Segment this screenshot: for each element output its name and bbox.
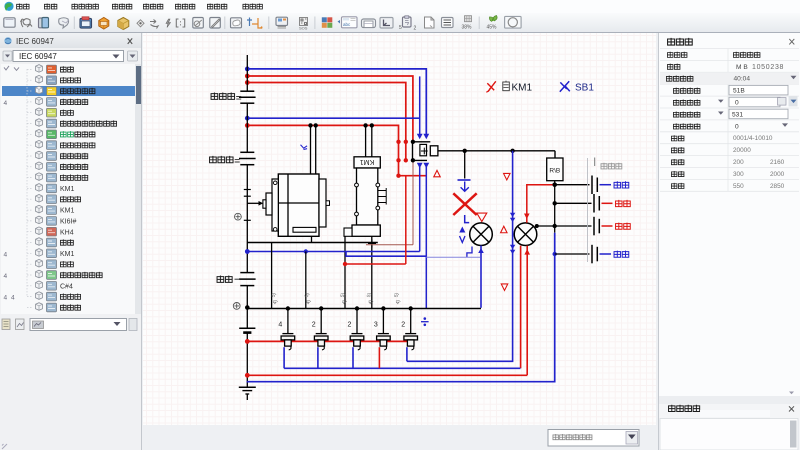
svg-text:IEC 60947: IEC 60947	[16, 37, 54, 46]
svg-text:KM1: KM1	[60, 251, 75, 258]
svg-text:38%: 38%	[462, 25, 473, 31]
svg-text:531: 531	[732, 111, 743, 118]
svg-text:5): 5)	[271, 292, 278, 298]
svg-text:550: 550	[733, 183, 744, 190]
svg-text:2: 2	[401, 322, 405, 329]
svg-text:KI6I#: KI6I#	[60, 219, 76, 226]
svg-text:51B: 51B	[733, 88, 745, 95]
svg-text:IEC 60947: IEC 60947	[19, 52, 57, 61]
svg-text:45%: 45%	[487, 25, 498, 31]
svg-text:SOS: SOS	[299, 26, 308, 31]
svg-text:KM1: KM1	[512, 83, 533, 94]
svg-text:2: 2	[312, 322, 316, 329]
svg-text:4: 4	[278, 322, 282, 329]
svg-text:KM1: KM1	[60, 208, 75, 215]
svg-text:5): 5)	[393, 292, 400, 298]
svg-text:abc: abc	[343, 22, 351, 27]
svg-text:KM1: KM1	[360, 158, 375, 165]
svg-text:2160: 2160	[770, 159, 785, 166]
svg-text:20000: 20000	[733, 147, 751, 154]
svg-text:0: 0	[735, 100, 739, 107]
svg-text:2: 2	[414, 26, 417, 32]
svg-text:4: 4	[4, 251, 8, 258]
svg-text:0001/4-10010: 0001/4-10010	[733, 135, 773, 142]
svg-text:40:04: 40:04	[734, 76, 751, 83]
svg-text:4): 4)	[368, 299, 375, 305]
svg-text:4): 4)	[305, 299, 312, 305]
svg-text:R\B: R\B	[549, 168, 560, 175]
svg-text:4: 4	[4, 295, 8, 302]
svg-text:3: 3	[374, 322, 378, 329]
svg-text:4): 4)	[272, 299, 279, 305]
svg-text:KM1: KM1	[60, 186, 75, 193]
svg-text:2850: 2850	[770, 183, 785, 190]
svg-text:5): 5)	[304, 292, 311, 298]
svg-text:300: 300	[733, 171, 744, 178]
svg-text:1050238: 1050238	[752, 64, 784, 71]
svg-text:4: 4	[4, 273, 8, 280]
svg-text:C#4: C#4	[60, 283, 73, 290]
svg-text:4: 4	[4, 100, 8, 107]
svg-text:M B: M B	[736, 64, 748, 71]
svg-text:4: 4	[11, 295, 15, 302]
svg-text:KH4: KH4	[60, 229, 74, 236]
svg-text:0: 0	[735, 123, 739, 130]
svg-text:5: 5	[399, 25, 402, 31]
svg-text:200: 200	[733, 159, 744, 166]
svg-text:4): 4)	[395, 299, 402, 305]
svg-text:2000: 2000	[770, 171, 785, 178]
svg-text:2: 2	[348, 322, 352, 329]
svg-text:SB1: SB1	[575, 83, 594, 94]
